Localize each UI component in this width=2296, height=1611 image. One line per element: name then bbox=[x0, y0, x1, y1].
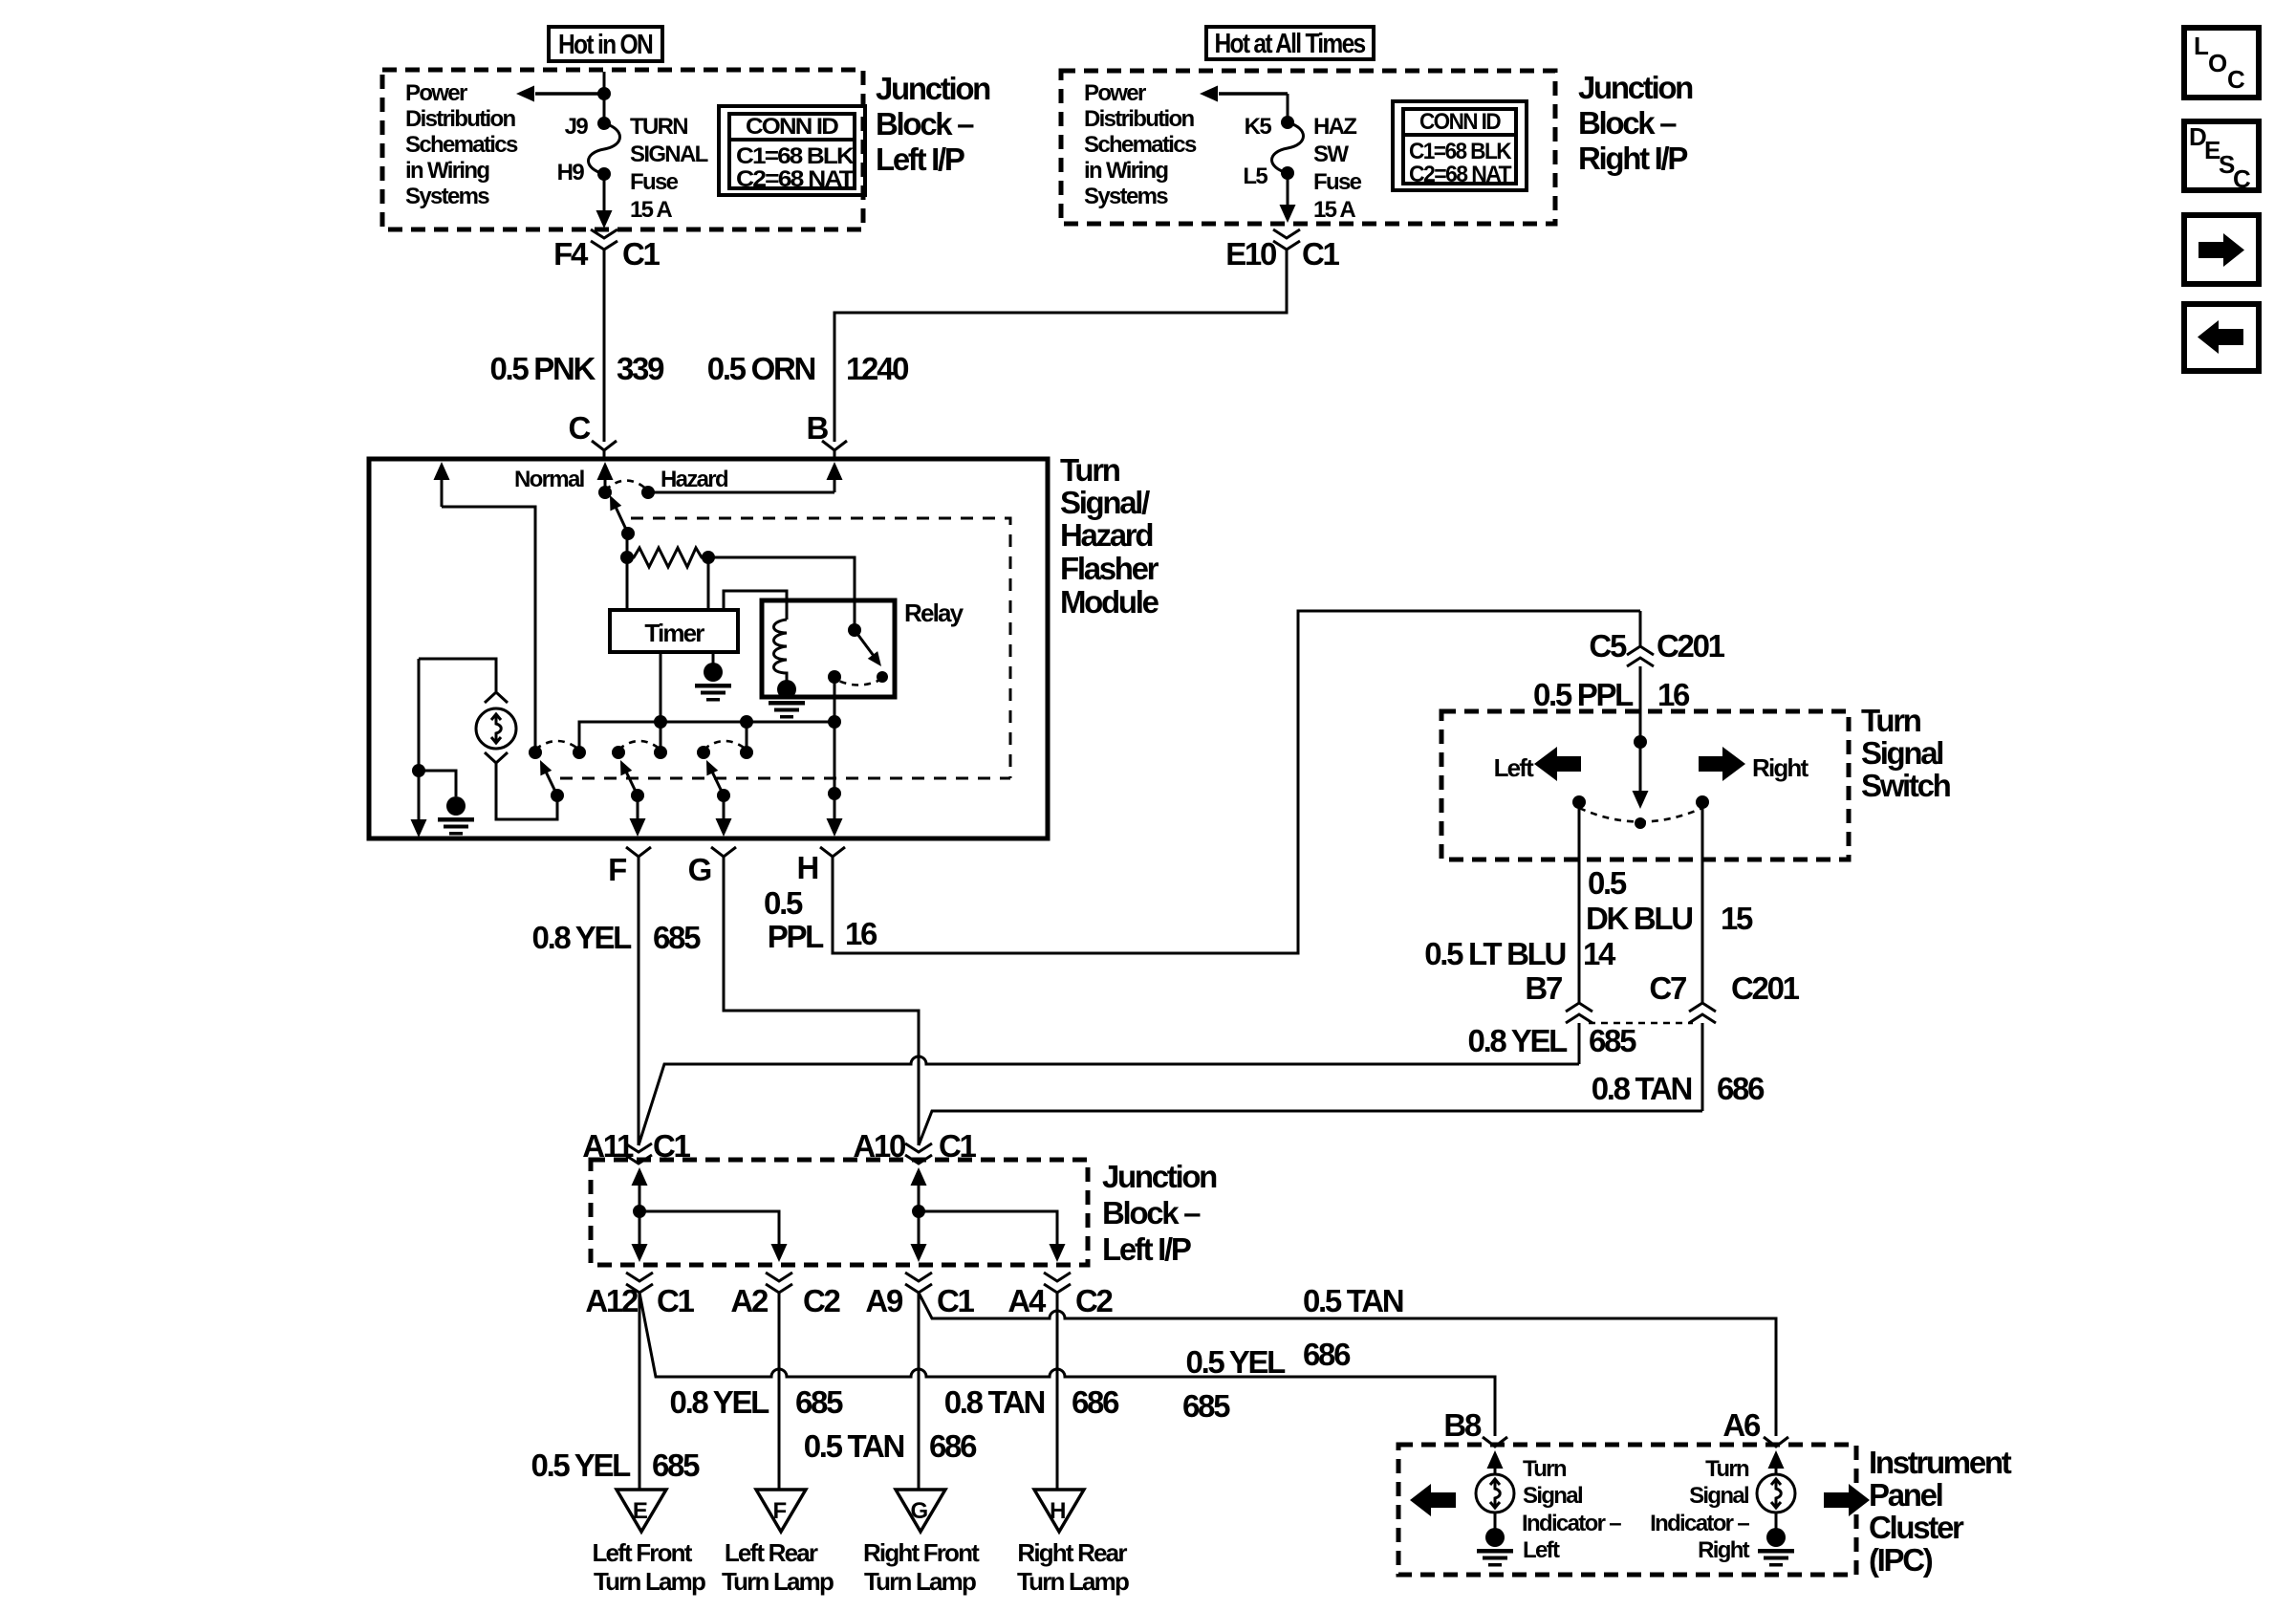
svg-text:0.5: 0.5 bbox=[1588, 865, 1627, 901]
module inner dashed boundary bbox=[560, 518, 1010, 778]
svg-text:0.5 TAN: 0.5 TAN bbox=[804, 1428, 904, 1464]
svg-text:0.5 PPL: 0.5 PPL bbox=[1533, 677, 1634, 712]
svg-text:C201: C201 bbox=[1657, 628, 1725, 664]
svg-text:O: O bbox=[2208, 49, 2227, 77]
connector A6 bbox=[1722, 1407, 1788, 1447]
svg-text:F: F bbox=[773, 1498, 787, 1524]
wire A2 to left rear lamp bbox=[778, 1293, 781, 1489]
junction block right dashed box bbox=[1061, 71, 1555, 224]
svg-text:0.5 LT BLU: 0.5 LT BLU bbox=[1424, 936, 1565, 971]
label Turn Signal Indicator - Left bbox=[1522, 1456, 1621, 1563]
back arrow box bbox=[2184, 304, 2259, 371]
connector F4/C1 bbox=[591, 229, 617, 250]
svg-text:Turn Lamp: Turn Lamp bbox=[594, 1567, 705, 1596]
svg-text:15 A: 15 A bbox=[630, 197, 672, 223]
label Junction Block - Right I/P bbox=[1578, 70, 1693, 176]
label Junction Block - Left I/P (lower) bbox=[1102, 1159, 1217, 1267]
wire resistor to timer (right) bbox=[707, 557, 710, 610]
svg-text:L5: L5 bbox=[1243, 163, 1267, 189]
svg-text:Systems: Systems bbox=[1084, 184, 1168, 209]
svg-text:C: C bbox=[2233, 164, 2251, 193]
dashed connector tie bbox=[1589, 1022, 1693, 1025]
lamp connector H bbox=[1034, 1490, 1084, 1532]
H output arrow bbox=[827, 722, 843, 837]
junction block left dashed box bbox=[382, 70, 863, 229]
svg-text:Signal/: Signal/ bbox=[1060, 485, 1150, 520]
svg-text:Turn: Turn bbox=[1523, 1456, 1567, 1482]
svg-text:0.8 YEL: 0.8 YEL bbox=[532, 920, 633, 955]
connector B7 bbox=[1525, 970, 1592, 1064]
svg-text:Left Front: Left Front bbox=[592, 1538, 692, 1567]
svg-text:C2=68 NAT: C2=68 NAT bbox=[1409, 162, 1512, 187]
svg-text:C1: C1 bbox=[1302, 236, 1340, 272]
svg-text:686: 686 bbox=[1717, 1071, 1765, 1106]
F output arrow bbox=[630, 795, 646, 837]
svg-text:Right I/P: Right I/P bbox=[1578, 141, 1687, 176]
timer ground bbox=[695, 652, 731, 702]
svg-text:Right Front: Right Front bbox=[863, 1538, 980, 1567]
svg-text:B8: B8 bbox=[1443, 1407, 1482, 1443]
svg-text:C1: C1 bbox=[657, 1283, 695, 1318]
svg-text:Turn Lamp: Turn Lamp bbox=[864, 1567, 976, 1596]
label Junction Block - Left I/P bbox=[876, 71, 990, 177]
dashed blade arc bbox=[1579, 808, 1702, 822]
svg-text:C1=68 BLK: C1=68 BLK bbox=[1409, 139, 1512, 164]
svg-text:TURN: TURN bbox=[630, 114, 687, 140]
svg-text:0.5 YEL: 0.5 YEL bbox=[531, 1448, 632, 1483]
svg-text:C1: C1 bbox=[622, 236, 661, 272]
svg-text:C1: C1 bbox=[937, 1283, 975, 1318]
svg-text:Fuse: Fuse bbox=[630, 169, 679, 195]
wire relay switch to bus/H bbox=[834, 677, 836, 722]
svg-text:686: 686 bbox=[929, 1428, 977, 1464]
svg-text:0.5 ORN: 0.5 ORN bbox=[707, 351, 815, 386]
svg-text:F: F bbox=[608, 852, 626, 887]
svg-text:0.8 TAN: 0.8 TAN bbox=[1592, 1071, 1692, 1106]
svg-text:Signal: Signal bbox=[1689, 1483, 1748, 1509]
svg-text:C2: C2 bbox=[803, 1283, 841, 1318]
svg-text:685: 685 bbox=[653, 920, 701, 955]
Hot at All Times box bbox=[1206, 27, 1374, 59]
svg-text:Indicator –: Indicator – bbox=[1650, 1511, 1749, 1536]
svg-text:in Wiring: in Wiring bbox=[405, 158, 489, 184]
svg-text:Switch: Switch bbox=[1861, 768, 1951, 803]
wire 0.8 YEL 685 to A11 bbox=[639, 1023, 1636, 1145]
svg-text:L: L bbox=[2194, 32, 2209, 60]
connector H below module bbox=[796, 611, 1640, 953]
svg-text:Power: Power bbox=[1084, 80, 1146, 106]
svg-text:16: 16 bbox=[1657, 677, 1690, 712]
svg-text:Signal: Signal bbox=[1861, 735, 1942, 771]
svg-text:B7: B7 bbox=[1525, 970, 1562, 1006]
C input arrow into module bbox=[597, 462, 614, 492]
svg-text:16: 16 bbox=[845, 916, 877, 951]
connector F below module bbox=[608, 847, 651, 1145]
forward arrow box bbox=[2184, 215, 2259, 284]
arrow to power distribution (right) bbox=[1200, 86, 1288, 102]
svg-text:Hazard: Hazard bbox=[661, 467, 728, 492]
svg-text:1240: 1240 bbox=[846, 351, 908, 386]
svg-text:Left I/P: Left I/P bbox=[876, 142, 964, 177]
svg-text:C2=68 NAT: C2=68 NAT bbox=[736, 166, 855, 192]
turn signal indicator left lamp bbox=[1476, 1474, 1514, 1567]
connector C5/C201 bbox=[1589, 611, 1724, 666]
svg-text:Hot at All Times: Hot at All Times bbox=[1215, 29, 1366, 59]
relay switch bbox=[828, 623, 888, 686]
relay coil bbox=[774, 620, 788, 681]
svg-text:H: H bbox=[1050, 1498, 1065, 1524]
wire fuse to connector E10 bbox=[1280, 173, 1296, 223]
timer box bbox=[610, 610, 738, 652]
connector A11/C1 bbox=[582, 1128, 690, 1164]
svg-text:685: 685 bbox=[1589, 1023, 1636, 1058]
bus wire bbox=[579, 715, 841, 752]
hazard wire to B bbox=[648, 491, 834, 494]
svg-text:686: 686 bbox=[1072, 1384, 1119, 1420]
svg-text:0.5: 0.5 bbox=[764, 885, 803, 921]
connector A2/C2 bbox=[766, 1273, 792, 1293]
svg-text:Junction: Junction bbox=[1102, 1159, 1217, 1194]
svg-text:F4: F4 bbox=[553, 236, 589, 272]
svg-text:685: 685 bbox=[795, 1384, 843, 1420]
svg-text:0.8 TAN: 0.8 TAN bbox=[944, 1384, 1045, 1420]
svg-text:Distribution: Distribution bbox=[1084, 106, 1195, 132]
svg-text:B: B bbox=[806, 410, 828, 446]
wire 0.5 ORN 1240 bbox=[834, 250, 1287, 442]
svg-text:G: G bbox=[688, 852, 711, 887]
left switch output wire bbox=[1578, 802, 1581, 1004]
wire A12 to left front lamp bbox=[639, 1293, 641, 1489]
svg-text:15 A: 15 A bbox=[1313, 197, 1355, 223]
svg-text:Turn: Turn bbox=[1060, 452, 1120, 488]
connector A9/C1 bbox=[905, 1273, 932, 1293]
svg-text:HAZ: HAZ bbox=[1313, 114, 1356, 140]
wire A9 to right front lamp bbox=[918, 1293, 921, 1489]
right indicator input arrow bbox=[1768, 1450, 1785, 1474]
svg-text:685: 685 bbox=[1182, 1388, 1230, 1424]
svg-text:Block –: Block – bbox=[876, 106, 974, 142]
svg-text:Systems: Systems bbox=[405, 184, 489, 209]
connector B8 bbox=[1443, 1407, 1507, 1447]
svg-text:in Wiring: in Wiring bbox=[1084, 158, 1168, 184]
module internal ground branch bbox=[411, 659, 475, 838]
left indicator input arrow bbox=[1487, 1450, 1504, 1474]
left contact bbox=[1572, 795, 1586, 809]
svg-text:Hot in ON: Hot in ON bbox=[558, 30, 652, 60]
wire 0.5 YEL 685 to IPC B8 bbox=[639, 1293, 1495, 1436]
turn signal indicator right lamp bbox=[1757, 1474, 1795, 1567]
label Turn Signal Indicator - Right bbox=[1650, 1456, 1750, 1563]
svg-text:Turn Lamp: Turn Lamp bbox=[722, 1567, 834, 1596]
svg-text:14: 14 bbox=[1583, 936, 1616, 971]
svg-text:Hazard: Hazard bbox=[1060, 517, 1152, 553]
connector C7/C201 bbox=[1649, 970, 1799, 1111]
label Right Front Turn Lamp bbox=[863, 1538, 980, 1596]
normal/hazard switch blade bbox=[604, 492, 635, 540]
svg-text:H: H bbox=[796, 850, 817, 885]
CONN ID table (left) bbox=[719, 106, 865, 195]
svg-text:Right: Right bbox=[1698, 1537, 1750, 1563]
svg-text:Indicator –: Indicator – bbox=[1522, 1511, 1621, 1536]
connector A10/C1 bbox=[853, 1128, 976, 1164]
svg-text:0.5 PNK: 0.5 PNK bbox=[489, 351, 596, 386]
label Turn Signal Switch bbox=[1861, 703, 1951, 803]
svg-text:Instrument: Instrument bbox=[1869, 1445, 2012, 1480]
svg-text:Relay: Relay bbox=[904, 599, 964, 627]
haz sw fuse 15A bbox=[1272, 94, 1304, 180]
LOC box bbox=[2184, 28, 2259, 98]
svg-text:Schematics: Schematics bbox=[405, 132, 518, 158]
wire timer to relay coil bbox=[724, 591, 787, 620]
svg-text:CONN ID: CONN ID bbox=[1419, 109, 1501, 135]
svg-text:Junction: Junction bbox=[1578, 70, 1693, 105]
label Instrument Panel Cluster (IPC) bbox=[1869, 1445, 2012, 1578]
Hot in ON box bbox=[549, 27, 662, 61]
svg-text:686: 686 bbox=[1303, 1337, 1351, 1372]
turn signal / hazard flasher module box bbox=[369, 459, 1048, 838]
relay box bbox=[762, 600, 895, 697]
connector G below module bbox=[688, 847, 919, 1145]
wire timer to bus bbox=[660, 652, 662, 722]
label Right Rear Turn Lamp bbox=[1017, 1538, 1129, 1596]
DESC box bbox=[2184, 121, 2259, 193]
dashed arc normal/hazard switch bbox=[605, 481, 648, 491]
svg-text:E: E bbox=[633, 1498, 648, 1524]
svg-text:A12: A12 bbox=[585, 1283, 639, 1318]
svg-text:15: 15 bbox=[1721, 901, 1753, 936]
normal feed output arrow (top left) bbox=[434, 462, 450, 507]
wire 0.5 TAN 686 to IPC A6 bbox=[919, 1293, 1776, 1436]
svg-text:685: 685 bbox=[652, 1448, 700, 1483]
svg-text:Fuse: Fuse bbox=[1313, 169, 1362, 195]
CONN ID table (right) bbox=[1393, 101, 1527, 190]
label Left Rear Turn Lamp bbox=[722, 1538, 834, 1596]
svg-text:A6: A6 bbox=[1722, 1407, 1761, 1443]
svg-text:G: G bbox=[911, 1498, 928, 1524]
svg-text:Normal: Normal bbox=[514, 467, 584, 492]
B input arrow into module bbox=[827, 462, 843, 492]
svg-text:SIGNAL: SIGNAL bbox=[630, 142, 708, 167]
switch feed wire with blade bbox=[1633, 666, 1649, 829]
resistor bbox=[620, 533, 715, 567]
svg-text:(IPC): (IPC) bbox=[1869, 1542, 1933, 1578]
svg-text:CONN ID: CONN ID bbox=[746, 114, 838, 140]
svg-text:Schematics: Schematics bbox=[1084, 132, 1197, 158]
right indicator arrow icon bbox=[1824, 1484, 1870, 1516]
power distribution note (left) bbox=[405, 80, 518, 209]
svg-text:Right: Right bbox=[1752, 753, 1809, 782]
wire 0.5 PNK 339 bbox=[603, 250, 606, 442]
svg-text:A4: A4 bbox=[1007, 1283, 1047, 1318]
right switch output wire bbox=[1701, 802, 1704, 1004]
right contact bbox=[1696, 795, 1709, 809]
svg-text:0.8 YEL: 0.8 YEL bbox=[1468, 1023, 1569, 1058]
lamp connector E bbox=[617, 1490, 666, 1532]
svg-text:A9: A9 bbox=[865, 1283, 903, 1318]
svg-text:C: C bbox=[568, 410, 590, 446]
svg-text:0.5 YEL: 0.5 YEL bbox=[1186, 1344, 1287, 1380]
svg-text:DK BLU: DK BLU bbox=[1586, 901, 1692, 936]
relay coil ground bbox=[769, 680, 805, 719]
wire fuse to connector F4 bbox=[596, 174, 613, 229]
svg-text:Block –: Block – bbox=[1102, 1195, 1201, 1230]
connector A4/C2 bbox=[1044, 1273, 1071, 1293]
svg-text:339: 339 bbox=[617, 351, 664, 386]
svg-text:C1=68 BLK: C1=68 BLK bbox=[736, 143, 856, 169]
svg-text:Flasher: Flasher bbox=[1060, 551, 1159, 586]
svg-text:C: C bbox=[2227, 65, 2245, 94]
svg-text:C2: C2 bbox=[1075, 1283, 1114, 1318]
svg-text:Turn Lamp: Turn Lamp bbox=[1017, 1567, 1129, 1596]
wire resistor to relay switch bbox=[708, 557, 855, 630]
power distribution note (right) bbox=[1084, 80, 1197, 209]
wire from Hot in ON into junction block bbox=[603, 72, 606, 122]
svg-text:Left I/P: Left I/P bbox=[1102, 1231, 1191, 1267]
svg-text:Distribution: Distribution bbox=[405, 106, 516, 132]
lamp feed switch 2 (F) bbox=[612, 741, 667, 802]
flasher indicator gauge bbox=[419, 659, 557, 819]
lamp feed switch 3 (G) bbox=[697, 741, 753, 802]
svg-text:C5: C5 bbox=[1589, 628, 1627, 664]
svg-text:0.5 TAN: 0.5 TAN bbox=[1303, 1283, 1403, 1318]
G output arrow bbox=[716, 795, 732, 837]
label Left Front Turn Lamp bbox=[592, 1538, 704, 1596]
svg-text:Right Rear: Right Rear bbox=[1017, 1538, 1127, 1567]
wire A4 to right rear lamp bbox=[1056, 1293, 1059, 1489]
junction block lower dashed box bbox=[591, 1160, 1088, 1265]
svg-text:Left Rear: Left Rear bbox=[725, 1538, 818, 1567]
svg-text:C201: C201 bbox=[1731, 970, 1800, 1006]
label Turn Signal/Hazard Flasher Module bbox=[1060, 452, 1159, 620]
arrow to power distribution bbox=[516, 86, 611, 102]
junction block internal wires (A10 side) bbox=[911, 1167, 1066, 1262]
svg-text:Power: Power bbox=[405, 80, 467, 106]
svg-text:H9: H9 bbox=[557, 160, 585, 185]
svg-text:Turn: Turn bbox=[1705, 1456, 1749, 1482]
svg-text:Cluster: Cluster bbox=[1869, 1510, 1964, 1545]
svg-text:Junction: Junction bbox=[876, 71, 990, 106]
lamp connector F bbox=[756, 1490, 806, 1532]
hazard contact node bbox=[641, 486, 655, 499]
wire 0.8 TAN 686 to A10 bbox=[919, 1071, 1765, 1145]
svg-text:Left: Left bbox=[1523, 1537, 1560, 1563]
svg-text:A2: A2 bbox=[730, 1283, 769, 1318]
svg-text:Panel: Panel bbox=[1869, 1477, 1942, 1513]
connector A12/C1 bbox=[626, 1273, 653, 1293]
svg-text:Signal: Signal bbox=[1523, 1483, 1582, 1509]
svg-text:E10: E10 bbox=[1225, 236, 1276, 272]
svg-text:Turn: Turn bbox=[1861, 703, 1921, 738]
left indicator arrow icon bbox=[1410, 1484, 1456, 1516]
junction block internal wires (A11 side) bbox=[632, 1167, 788, 1262]
svg-text:Timer: Timer bbox=[644, 619, 704, 647]
svg-text:Block –: Block – bbox=[1578, 105, 1677, 141]
instrument panel cluster dashed box bbox=[1398, 1445, 1856, 1575]
turn signal fuse 15A bbox=[589, 117, 620, 181]
connector E10/C1 bbox=[1273, 229, 1300, 250]
svg-text:PPL: PPL bbox=[768, 919, 824, 954]
svg-text:J9: J9 bbox=[565, 114, 589, 140]
wire normal feed to lamp switch common bbox=[442, 507, 535, 752]
Left direction arrow bbox=[1494, 747, 1581, 782]
turn signal switch dashed box bbox=[1441, 711, 1849, 860]
wire resistor to timer (left) bbox=[626, 557, 629, 610]
Right direction arrow bbox=[1699, 747, 1809, 782]
normal contact node bbox=[598, 486, 612, 499]
lamp connector G bbox=[896, 1490, 945, 1532]
svg-text:Left: Left bbox=[1494, 753, 1535, 782]
svg-text:0.8 YEL: 0.8 YEL bbox=[670, 1384, 770, 1420]
svg-text:Module: Module bbox=[1060, 584, 1159, 620]
svg-text:SW: SW bbox=[1313, 142, 1349, 167]
svg-text:K5: K5 bbox=[1245, 114, 1272, 140]
lamp feed switch 1 (left front) bbox=[529, 741, 586, 802]
svg-text:C7: C7 bbox=[1649, 970, 1686, 1006]
